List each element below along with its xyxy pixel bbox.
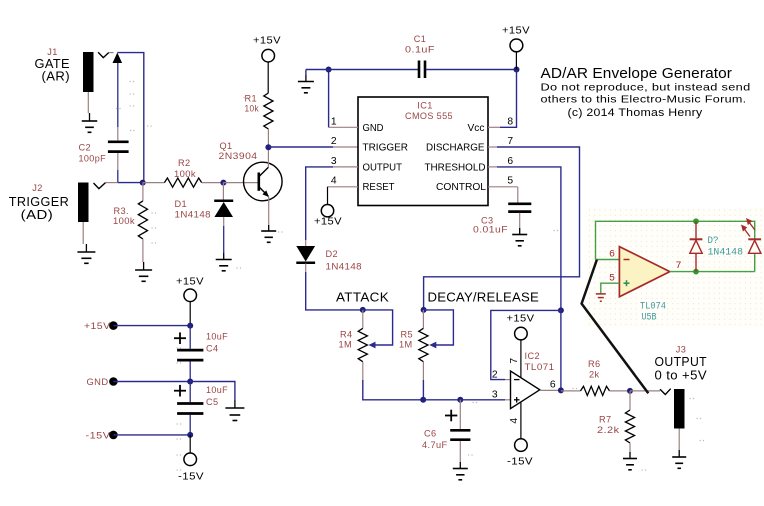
svg-text:C2: C2 bbox=[79, 143, 92, 153]
svg-text:(c) 2014 Thomas Henry: (c) 2014 Thomas Henry bbox=[568, 107, 703, 119]
resistor R3 100k bbox=[113, 201, 148, 239]
svg-text:J3: J3 bbox=[676, 345, 687, 355]
inset pin number 5 bbox=[609, 274, 615, 285]
ground under J1 bbox=[82, 121, 98, 132]
node: GND junction bbox=[187, 379, 193, 385]
svg-text:1N4148: 1N4148 bbox=[326, 262, 363, 272]
inset background with grid bbox=[587, 207, 764, 327]
IC1 pin number 2 bbox=[331, 136, 337, 147]
IC1 pin number 7 bbox=[507, 136, 513, 147]
IC1 pin number 5 bbox=[507, 176, 513, 187]
svg-text:6: 6 bbox=[550, 379, 556, 390]
inset wire: output rail bbox=[670, 271, 755, 273]
inset node: top rail junction bbox=[693, 218, 699, 224]
IC1 pin name CONTROL bbox=[436, 182, 486, 193]
annotation pointer line bbox=[582, 260, 649, 394]
ground at top rail bbox=[298, 82, 314, 93]
wire: Q1 collector to node C bbox=[267, 147, 269, 167]
svg-text:OUTPUT: OUTPUT bbox=[363, 162, 403, 173]
svg-text:D2: D2 bbox=[326, 249, 339, 259]
potentiometer R5 1M bbox=[399, 328, 428, 361]
IC1 pin number 8 bbox=[507, 117, 513, 128]
svg-text:-15V: -15V bbox=[86, 431, 112, 441]
wire: output node to R6 bbox=[561, 390, 581, 392]
label DECAY/RELEASE bbox=[428, 289, 540, 304]
capacitor C3 0.01uF bbox=[473, 204, 531, 235]
ground under D1 bbox=[216, 260, 232, 271]
svg-text:R5: R5 bbox=[401, 330, 414, 340]
svg-text:R7: R7 bbox=[599, 415, 612, 425]
IC1 pin number 4 bbox=[331, 176, 337, 187]
terminal dot +15V bbox=[109, 321, 118, 330]
IC1 pin 3 OUTPUT lead bbox=[333, 166, 358, 168]
wire: GND rail bbox=[113, 381, 190, 383]
wire: C2 to J2 node bbox=[117, 153, 119, 183]
transistor Q1 2N3904 bbox=[219, 141, 283, 201]
resistor R6 2k bbox=[581, 359, 610, 396]
svg-text:100pF: 100pF bbox=[79, 154, 107, 164]
svg-text:7: 7 bbox=[675, 261, 681, 272]
svg-text:1N4148: 1N4148 bbox=[175, 210, 212, 220]
svg-text:C5: C5 bbox=[206, 397, 219, 407]
node: feedback junction bbox=[558, 307, 564, 313]
wire: R1 to node C bbox=[267, 129, 269, 147]
diode D2 1N4148 bbox=[296, 246, 362, 272]
IC1 pin number 6 bbox=[507, 156, 513, 167]
IC1 pin 1 lead bbox=[329, 126, 358, 128]
svg-text:(AR): (AR) bbox=[42, 69, 71, 84]
capacitor C2 100pF bbox=[79, 142, 129, 164]
wire: C6 to ground bbox=[459, 441, 461, 469]
wire: D2 to ATTACK rail bbox=[306, 264, 363, 310]
label -15V rail bbox=[86, 431, 112, 441]
inset wire: feedback top rail bbox=[596, 221, 755, 259]
svg-text:0.1uF: 0.1uF bbox=[405, 45, 435, 55]
node: output junction bbox=[558, 387, 564, 393]
terminal dot -15V bbox=[109, 431, 118, 440]
svg-text:THRESHOLD: THRESHOLD bbox=[425, 162, 486, 173]
title text block bbox=[541, 65, 751, 119]
svg-text:+15V: +15V bbox=[176, 276, 204, 288]
svg-text:+15V: +15V bbox=[502, 25, 530, 37]
svg-text:-15V: -15V bbox=[178, 471, 204, 483]
node: DECAY junction bbox=[421, 307, 427, 313]
ground under C6 bbox=[453, 469, 468, 480]
capacitor C6 4.7uF bbox=[422, 410, 470, 450]
svg-text:3: 3 bbox=[492, 390, 498, 401]
wire: +15V to R1 bbox=[267, 62, 269, 93]
svg-text:R2: R2 bbox=[178, 158, 191, 168]
+15V supply at Vcc bbox=[502, 25, 530, 52]
wire: R5 to bottom rail bbox=[422, 362, 424, 400]
svg-text:GND: GND bbox=[363, 123, 384, 134]
wire: bottom rail to C6 bbox=[423, 399, 460, 401]
inset node: output junction bbox=[693, 269, 699, 275]
connector J3 OUTPUT jack bbox=[655, 345, 708, 429]
IC1 pin name Vcc bbox=[468, 123, 485, 134]
wire: feedback node to output node bbox=[560, 310, 562, 390]
node: C4 top junction bbox=[187, 323, 193, 329]
wire: C3 to ground bbox=[519, 213, 521, 235]
wire: J3 to ground bbox=[678, 429, 680, 458]
wire: THRESHOLD to feedback node bbox=[497, 167, 561, 311]
svg-text:4.7uF: 4.7uF bbox=[422, 440, 448, 450]
wire: C1 to Vcc rail bbox=[426, 69, 517, 71]
svg-text:1N4148: 1N4148 bbox=[708, 247, 744, 259]
svg-text:IC2: IC2 bbox=[525, 351, 541, 361]
svg-text:1: 1 bbox=[331, 117, 337, 128]
IC2 pin number 7 bbox=[509, 357, 520, 363]
svg-text:10k: 10k bbox=[245, 104, 260, 114]
wire: J2 to node A bbox=[106, 182, 143, 184]
wire: node B to Q1 base bbox=[223, 182, 258, 184]
svg-text:R6: R6 bbox=[588, 359, 601, 369]
inset wire: pin 6 input bbox=[596, 259, 620, 261]
wire: R6 to output net bbox=[610, 390, 631, 392]
svg-text:RESET: RESET bbox=[363, 182, 396, 193]
IC1 pin name OUTPUT bbox=[363, 162, 403, 173]
node: R6 R7 J3 junction bbox=[627, 388, 633, 394]
IC1 pin 5 CONTROL lead bbox=[488, 187, 518, 203]
svg-text:DISCHARGE: DISCHARGE bbox=[426, 143, 485, 154]
connector J1 GATE (AR) jack bbox=[35, 47, 109, 92]
wire: -15V rail bbox=[113, 434, 190, 436]
wire: +15V circle to rail bbox=[515, 52, 517, 70]
svg-text:TL071: TL071 bbox=[525, 362, 555, 372]
wire: J1 lead to ground bbox=[88, 92, 89, 121]
op-amp IC2 TL071 bbox=[511, 351, 555, 409]
+15V supply at IC2 pin 7 bbox=[507, 313, 535, 378]
svg-text:C6: C6 bbox=[424, 429, 437, 439]
ground under J3 bbox=[672, 457, 686, 468]
node: ground rail junction bbox=[326, 67, 332, 73]
node: Vcc rail junction bbox=[514, 67, 520, 73]
wire: ATTACK bracket to R4 wiper bbox=[363, 310, 393, 349]
inset op-amp U5B TL074 bbox=[619, 247, 669, 324]
wire: R7 to ground bbox=[629, 443, 631, 459]
svg-text:2: 2 bbox=[331, 136, 337, 147]
wire: node to J3 bbox=[630, 390, 660, 392]
svg-text:+15V: +15V bbox=[84, 321, 111, 331]
IC1 pin name RESET bbox=[363, 182, 396, 193]
wire: arrow to GATE node A bbox=[117, 53, 144, 182]
inset wire: pin 5 to ground bbox=[601, 283, 620, 293]
wire: ATTACK node to R4 bbox=[362, 310, 364, 328]
-15V supply at PSU bottom bbox=[178, 435, 204, 483]
inset wire: right rail bbox=[754, 254, 756, 272]
-15V supply at IC2 pin 4 bbox=[507, 403, 533, 468]
wire: node to R7 bbox=[629, 391, 631, 410]
svg-text:CONTROL: CONTROL bbox=[436, 182, 486, 193]
wire: D1 to ground bbox=[223, 217, 225, 260]
connector J2 TRIGGER (AD) jack bbox=[9, 183, 106, 223]
svg-text:D?: D? bbox=[708, 235, 719, 247]
IC1 pin 4 lead bbox=[328, 186, 359, 188]
wire: R3 to ground bbox=[142, 239, 145, 270]
label ATTACK bbox=[336, 289, 389, 304]
IC2 pin number 6 bbox=[550, 379, 556, 390]
IC1 pin name THRESHOLD bbox=[425, 162, 486, 173]
inset diode D? 1N4148 bbox=[690, 221, 743, 271]
inset pin number 7 bbox=[675, 261, 681, 272]
IC2 pin number 4 bbox=[509, 417, 520, 423]
IC1 pin number 1 bbox=[331, 117, 337, 128]
wire: DECAY bracket to R5 wiper bbox=[424, 310, 454, 349]
wire: node B to D1 bbox=[222, 183, 224, 200]
svg-text:0.01uF: 0.01uF bbox=[473, 225, 508, 235]
wire: C6 top lead bbox=[459, 400, 461, 429]
dust specks (decorative) bbox=[116, 82, 704, 471]
svg-text:1M: 1M bbox=[399, 340, 413, 350]
node A junction bbox=[140, 180, 146, 186]
svg-text:CMOS 555: CMOS 555 bbox=[405, 111, 453, 121]
svg-text:8: 8 bbox=[507, 117, 513, 128]
inset ground at pin 5 bbox=[596, 294, 606, 301]
wire: R4 to bottom rail bbox=[363, 362, 423, 400]
svg-text:GND: GND bbox=[87, 377, 109, 387]
IC1 pin 6 THRESHOLD lead bbox=[488, 166, 497, 168]
svg-text:ATTACK: ATTACK bbox=[336, 289, 389, 304]
svg-text:-15V: -15V bbox=[507, 456, 533, 468]
svg-text:IC1: IC1 bbox=[417, 101, 433, 111]
IC2 pin number 2 bbox=[492, 370, 498, 381]
svg-text:C4: C4 bbox=[206, 344, 219, 354]
wire: rail down to Vcc pin 8 bbox=[488, 70, 517, 128]
ground under Q1 emitter bbox=[261, 231, 276, 242]
svg-text:U5B: U5B bbox=[642, 312, 657, 324]
svg-text:6: 6 bbox=[609, 250, 615, 261]
wire: node A to R2 bbox=[143, 182, 165, 184]
svg-text:D1: D1 bbox=[175, 199, 188, 209]
terminal dot GND bbox=[109, 377, 118, 386]
svg-text:3: 3 bbox=[331, 156, 337, 167]
svg-text:+15V: +15V bbox=[507, 313, 535, 325]
label GND rail bbox=[87, 377, 109, 387]
svg-text:Do not reproduce, but instead: Do not reproduce, but instead send bbox=[541, 82, 751, 93]
svg-text:Vcc: Vcc bbox=[468, 123, 485, 134]
wire: +15V rail to C4 bbox=[189, 326, 191, 349]
svg-text:2k: 2k bbox=[589, 370, 600, 380]
wire: bottom rail to IC2 pin 3 bbox=[460, 399, 510, 401]
capacitor C1 0.1uF bbox=[405, 34, 435, 78]
wire: GND rail to C5 bbox=[189, 382, 191, 403]
svg-text:2: 2 bbox=[492, 370, 498, 381]
IC1 pin 7 DISCHARGE lead bbox=[488, 146, 497, 148]
wire: IC2 output to node bbox=[540, 389, 561, 391]
inset pin number 6 bbox=[609, 250, 615, 261]
ground under R7 bbox=[623, 459, 637, 470]
svg-text:0 to +5V: 0 to +5V bbox=[655, 368, 708, 383]
IC1 pin name DISCHARGE bbox=[426, 143, 485, 154]
resistor R2 100k bbox=[164, 158, 201, 187]
svg-text:2.2k: 2.2k bbox=[597, 425, 620, 435]
wire: feedback to IC2 pin 2 bbox=[491, 310, 561, 379]
wire: +15V rail bbox=[113, 325, 190, 327]
label +15V rail bbox=[84, 321, 111, 331]
svg-text:10uF: 10uF bbox=[206, 332, 228, 342]
wire: ground rail to C1 bbox=[329, 69, 418, 71]
svg-text:+15V: +15V bbox=[253, 35, 281, 47]
resistor R1 10k bbox=[245, 93, 274, 129]
svg-text:C1: C1 bbox=[414, 34, 427, 44]
inset LED indicator diode bbox=[741, 218, 761, 253]
svg-text:AD/AR Envelope Generator: AD/AR Envelope Generator bbox=[541, 65, 733, 82]
wire: J1 tip to arrow bbox=[109, 52, 114, 54]
+15V supply at PSU top bbox=[176, 276, 204, 326]
svg-text:4: 4 bbox=[331, 176, 337, 187]
wire: OUTPUT to D2 bbox=[306, 167, 333, 246]
ground under J2 bbox=[77, 252, 95, 263]
svg-text:(AD): (AD) bbox=[21, 207, 54, 222]
gate input arrow bbox=[113, 53, 123, 63]
wire: node C to IC1 TRIGGER pin 2 bbox=[268, 146, 358, 148]
wire: pin 1 to ground rail bbox=[328, 70, 330, 128]
node: C6 junction bbox=[457, 397, 463, 403]
svg-text:R3.: R3. bbox=[114, 206, 130, 216]
op-amp IC1 CMOS 555 box bbox=[358, 97, 488, 206]
svg-text:J2: J2 bbox=[32, 183, 43, 193]
wire: DISCHARGE to DECAY node bbox=[424, 147, 580, 310]
IC1 pin name TRIGGER bbox=[363, 143, 409, 154]
svg-text:R1: R1 bbox=[245, 94, 258, 104]
node B junction bbox=[220, 180, 226, 186]
svg-text:6: 6 bbox=[507, 156, 513, 167]
wire: C5 to -15V rail bbox=[189, 415, 191, 435]
IC2 pin number 3 bbox=[492, 390, 498, 401]
wire: J2 lead to ground bbox=[83, 222, 86, 252]
wire: node A to R3 bbox=[142, 183, 144, 201]
IC1 pin number 3 bbox=[331, 156, 337, 167]
svg-text:others to this Electro-Music F: others to this Electro-Music Forum. bbox=[541, 94, 747, 105]
svg-text:7: 7 bbox=[507, 136, 513, 147]
svg-text:5: 5 bbox=[507, 176, 513, 187]
svg-text:100k: 100k bbox=[113, 216, 135, 226]
node C junction bbox=[265, 144, 271, 150]
IC1 pin name GND bbox=[363, 123, 384, 134]
wire: arrow down to C2 bbox=[117, 63, 119, 140]
svg-text:7: 7 bbox=[509, 357, 520, 363]
svg-text:10uF: 10uF bbox=[206, 385, 228, 395]
svg-text:+15V: +15V bbox=[314, 216, 342, 228]
node: R5 bottom junction bbox=[420, 397, 426, 403]
diode D1 1N4148 bbox=[175, 199, 234, 220]
capacitor C4 10uF bbox=[174, 332, 228, 361]
capacitor C5 10uF bbox=[174, 385, 228, 414]
svg-text:2N3904: 2N3904 bbox=[219, 151, 258, 161]
svg-text:Q1: Q1 bbox=[220, 141, 233, 151]
svg-text:R4: R4 bbox=[340, 330, 353, 340]
svg-text:1M: 1M bbox=[339, 340, 353, 350]
node: C5 bottom junction bbox=[187, 432, 193, 438]
resistor R7 2.2k bbox=[597, 410, 635, 443]
ground at PSU bbox=[225, 408, 244, 421]
+15V supply at RESET pin 4 bbox=[314, 187, 342, 228]
wire: DECAY node to R5 bbox=[422, 310, 424, 328]
ground under R3 bbox=[135, 270, 152, 281]
wire: C4 to GND rail bbox=[189, 361, 191, 381]
potentiometer R4 1M bbox=[339, 328, 368, 361]
svg-text:TRIGGER: TRIGGER bbox=[363, 143, 409, 154]
svg-text:4: 4 bbox=[509, 417, 520, 423]
wire: Q1 emitter to ground bbox=[268, 197, 270, 231]
svg-text:DECAY/RELEASE: DECAY/RELEASE bbox=[428, 289, 540, 304]
wire: GND rail to ground symbol bbox=[190, 382, 235, 409]
node: ATTACK junction bbox=[360, 307, 366, 313]
+15V supply at R1 bbox=[253, 35, 281, 63]
ground under C3 bbox=[512, 235, 527, 246]
wire: ground rail left bbox=[306, 70, 329, 82]
svg-text:100k: 100k bbox=[174, 169, 196, 179]
wire: R2 to node B bbox=[202, 182, 224, 184]
